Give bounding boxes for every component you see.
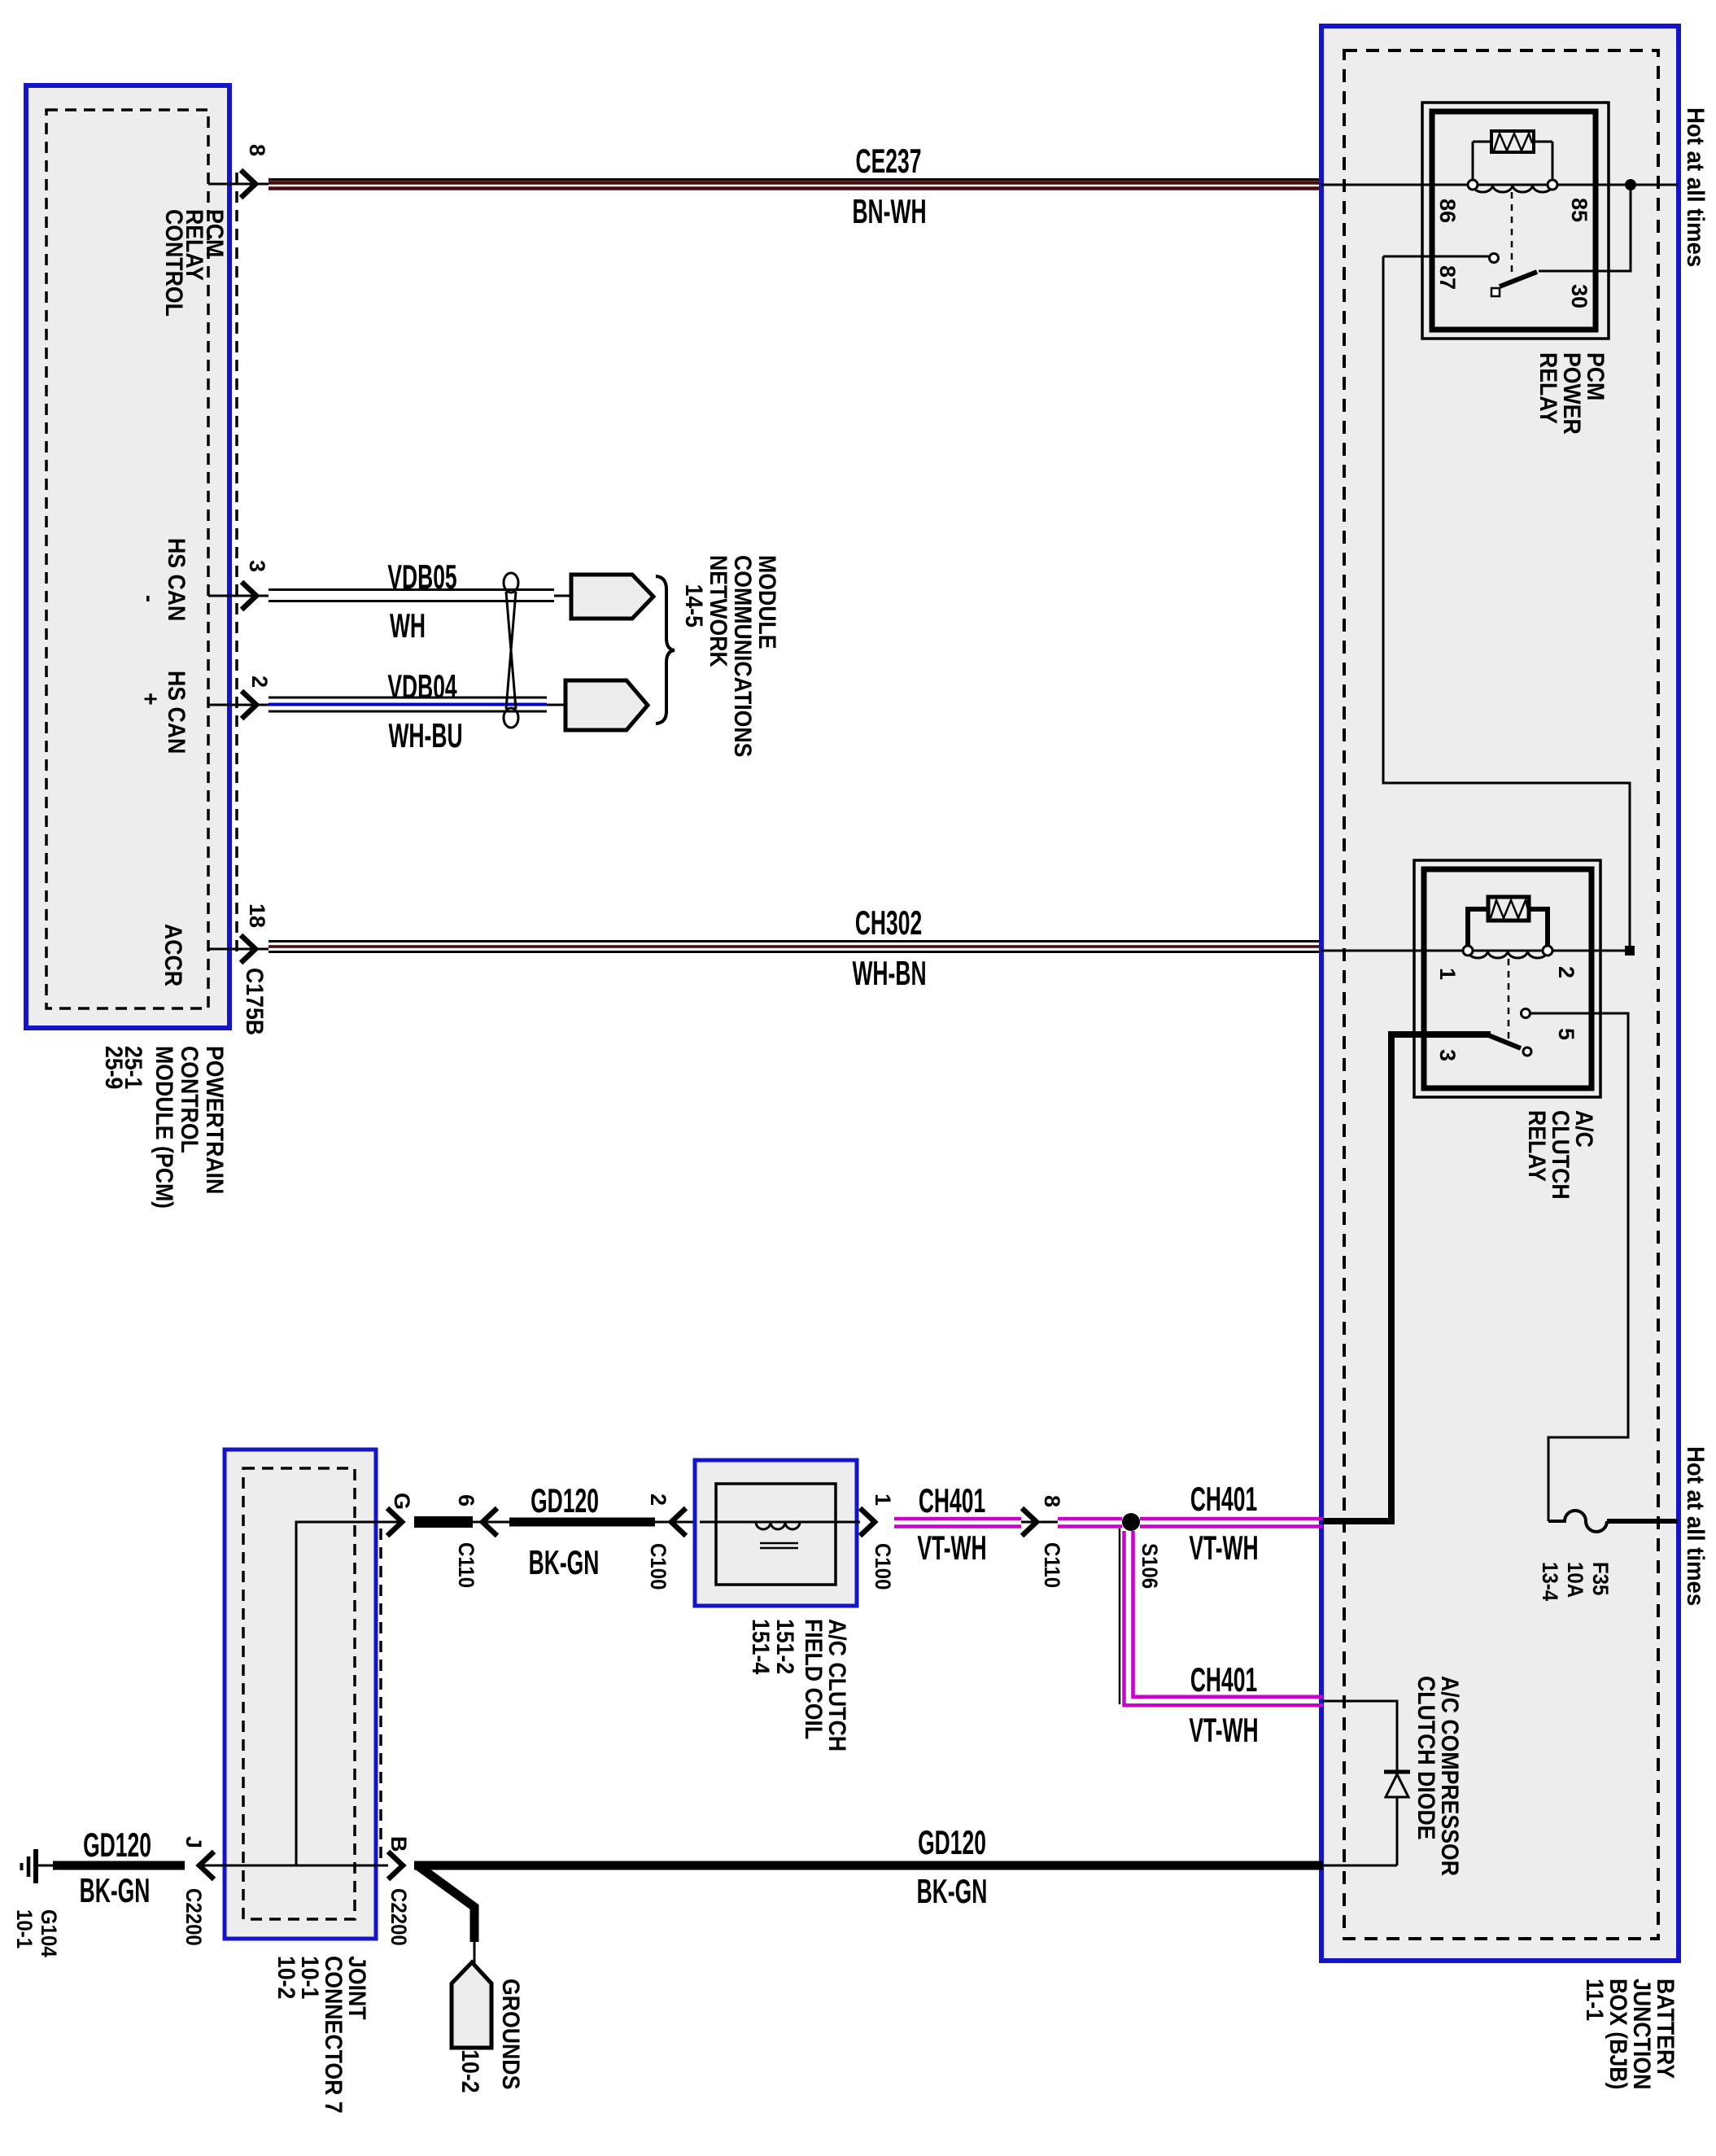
svg-text:VT-WH: VT-WH — [1189, 1529, 1258, 1568]
svg-text:C100: C100 — [871, 1543, 895, 1590]
relay coil — [1473, 185, 1552, 192]
wire CH302 WH-BN — [269, 940, 1321, 942]
relay coil — [1468, 951, 1548, 958]
svg-text:8: 8 — [245, 144, 269, 156]
relay resistor — [1488, 897, 1529, 921]
wire VDB04 WH-BU — [269, 697, 547, 699]
relay armature dashed link — [1508, 959, 1510, 1039]
wire GD120 BK-GN (right) — [414, 1861, 1323, 1870]
pin 87 contact — [1490, 254, 1499, 263]
connector C2200 dashed line — [379, 1528, 382, 1865]
svg-text:2: 2 — [1554, 966, 1578, 978]
wire inside BJB top (CE237 continuation) — [1321, 184, 1678, 186]
pin 8 (C110) — [1022, 1508, 1037, 1536]
svg-text:3: 3 — [245, 560, 269, 572]
svg-text:S106: S106 — [1137, 1543, 1162, 1589]
svg-text:5: 5 — [1554, 1028, 1578, 1040]
wire CH401 vertical from S106 — [1119, 1528, 1121, 1704]
svg-text:BK-GN: BK-GN — [80, 1872, 151, 1910]
A/C compressor clutch diode — [1384, 1770, 1410, 1774]
C110 stub — [414, 1516, 473, 1528]
connector C175B dashed line — [235, 173, 238, 954]
twisted pair symbol — [504, 573, 518, 728]
connector pentagon upper — [571, 575, 653, 619]
wire GD120 BK-GN (left) — [53, 1861, 185, 1870]
svg-text:VT-WH: VT-WH — [1189, 1712, 1258, 1750]
wire CE237 BN-WH — [269, 178, 1321, 181]
svg-text:CH401: CH401 — [919, 1482, 985, 1520]
svg-text:B: B — [386, 1836, 411, 1852]
svg-text:C110: C110 — [454, 1542, 478, 1588]
svg-text:HS CAN: HS CAN — [163, 671, 190, 754]
svg-text:CE237: CE237 — [856, 142, 922, 181]
branch to grounds — [417, 1865, 474, 1942]
svg-text:WH-BN: WH-BN — [852, 955, 926, 993]
svg-text:VDB04: VDB04 — [387, 668, 457, 706]
svg-text:2: 2 — [646, 1493, 670, 1506]
svg-text:C175B: C175B — [241, 968, 269, 1035]
svg-text:VDB05: VDB05 — [387, 558, 456, 597]
svg-text:BK-GN: BK-GN — [529, 1544, 600, 1582]
pin 6 — [482, 1508, 497, 1536]
svg-text:BN-WH: BN-WH — [852, 193, 926, 231]
PCM module box — [26, 85, 229, 1028]
svg-text:18: 18 — [245, 903, 269, 928]
wire CH401 stub — [1058, 1517, 1122, 1521]
junction dot on CE237 — [1625, 179, 1636, 190]
relay switch arm — [1500, 272, 1537, 286]
svg-text:6: 6 — [454, 1494, 478, 1507]
junction square at coil pin 2 — [1625, 946, 1635, 956]
pin 5 wire to fuse — [1530, 1013, 1628, 1521]
wire inside BJB mid (CH302 continuation) — [1321, 950, 1626, 952]
wire inside BJB bottom to diode — [1323, 1865, 1397, 1867]
splice S106 — [1122, 1513, 1140, 1531]
svg-text:J: J — [181, 1836, 206, 1848]
BJB dashed border — [1344, 50, 1658, 1939]
svg-text:GD120: GD120 — [531, 1482, 599, 1520]
svg-text:HS CAN: HS CAN — [163, 538, 190, 621]
pin 8 — [208, 183, 269, 186]
pin J — [199, 1852, 214, 1879]
svg-text:C2200: C2200 — [386, 1888, 411, 1946]
relay resistor — [1491, 131, 1534, 152]
svg-text:30: 30 — [1567, 284, 1592, 308]
field coil — [756, 1522, 800, 1529]
svg-text:CH302: CH302 — [855, 904, 922, 942]
A/C clutch relay outer box — [1414, 860, 1600, 1097]
svg-text:ACCR: ACCR — [159, 924, 187, 986]
svg-text:+: + — [137, 693, 164, 706]
svg-text:C2200: C2200 — [181, 1888, 206, 1946]
svg-text:2: 2 — [247, 676, 272, 688]
relay switch arm — [1487, 1034, 1521, 1048]
pin 87 wire — [1383, 256, 1489, 258]
svg-text:Hot at all times: Hot at all times — [1682, 1446, 1709, 1606]
relay armature dashed link — [1511, 192, 1513, 275]
grounds pentagon — [452, 1962, 491, 2048]
svg-text:CH401: CH401 — [1190, 1661, 1257, 1699]
brace — [656, 576, 675, 724]
svg-text:G: G — [390, 1493, 414, 1510]
svg-text:3: 3 — [1435, 1049, 1460, 1061]
pin 1 (C100) — [860, 1508, 875, 1536]
svg-text:VT-WH: VT-WH — [917, 1529, 986, 1568]
svg-text:-: - — [136, 595, 164, 602]
svg-text:1: 1 — [871, 1493, 895, 1506]
wire CH401 VT-WH (2) — [1140, 1517, 1323, 1521]
field coil wire through — [700, 1521, 860, 1524]
svg-text:BK-GN: BK-GN — [917, 1873, 988, 1911]
pin B — [388, 1852, 403, 1879]
A/C clutch relay inner box — [1424, 869, 1592, 1088]
wire 85 to 30 — [1539, 187, 1631, 271]
svg-text:C100: C100 — [646, 1543, 670, 1590]
pin 3 wire to CH401 — [1323, 1034, 1491, 1521]
pin 2 (C100) — [671, 1508, 686, 1536]
svg-text:GD120: GD120 — [83, 1826, 151, 1865]
wire GD120 BK-GN (mid) — [509, 1518, 655, 1527]
svg-text:GD120: GD120 — [918, 1824, 986, 1862]
svg-text:87: 87 — [1435, 265, 1460, 290]
svg-text:WH-BU: WH-BU — [388, 717, 462, 755]
pin G — [387, 1508, 402, 1536]
fuse F35 — [1548, 1511, 1607, 1532]
svg-text:86: 86 — [1435, 199, 1460, 223]
pin 5 contact — [1522, 1009, 1530, 1018]
svg-text:Hot at all times: Hot at all times — [1682, 107, 1709, 267]
lower CH401 into BJB to diode — [1323, 1701, 1397, 1865]
svg-text:8: 8 — [1040, 1495, 1064, 1507]
PCM power relay inner box — [1432, 112, 1596, 330]
A/C clutch field coil box — [695, 1460, 857, 1606]
wire VDB05 WH — [269, 588, 554, 591]
connector pentagon lower — [565, 680, 648, 730]
wire CH401 VT-WH (1) — [894, 1517, 1021, 1521]
joint connector dashed border — [243, 1468, 355, 1919]
battery junction box — [1321, 26, 1679, 1961]
ground G104 — [33, 1849, 38, 1883]
svg-text:85: 85 — [1567, 198, 1592, 222]
svg-text:C110: C110 — [1040, 1542, 1064, 1588]
svg-text:WH: WH — [390, 607, 426, 645]
pin 2 — [208, 704, 269, 706]
svg-text:CH401: CH401 — [1190, 1480, 1257, 1519]
pin 3 — [208, 595, 269, 597]
pin 18 — [208, 948, 269, 951]
svg-text:1: 1 — [1435, 968, 1460, 980]
PCM power relay outer box — [1422, 103, 1609, 339]
joint connector box — [225, 1450, 376, 1939]
joint connector internal wire — [296, 1522, 402, 1865]
PCM inner dashed border — [46, 110, 208, 1008]
